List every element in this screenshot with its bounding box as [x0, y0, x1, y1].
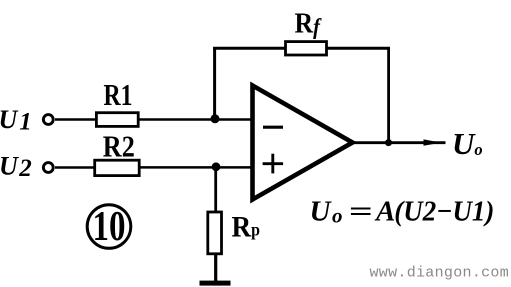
wire Rp to ground — [214, 255, 217, 282]
node U1 input terminal — [0, 105, 53, 136]
svg-text:U1: U1 — [0, 105, 32, 136]
wire feedback vertical right — [387, 47, 390, 143]
wire feedback top left — [213, 47, 286, 50]
wire U2 terminal to R2 — [55, 166, 94, 169]
resistor Rp — [208, 210, 260, 254]
resistor Rf — [286, 8, 327, 55]
pin plus (non-inverting input) — [263, 154, 284, 174]
svg-text:Rf: Rf — [295, 8, 323, 40]
pin minus (inverting input) — [263, 126, 283, 129]
node junction at inverting input — [211, 114, 220, 123]
node junction at non-inverting input — [212, 162, 221, 171]
wire op-amp output to Uo with arrow — [353, 139, 446, 145]
resistor R1 — [96, 77, 138, 126]
figure number 10 — [87, 204, 131, 250]
node U2 input terminal — [0, 152, 53, 183]
wire feedback vertical left — [213, 47, 216, 120]
svg-text:Uo=A(U2−U1): Uo=A(U2−U1) — [310, 196, 495, 228]
svg-text:Rp: Rp — [232, 210, 261, 243]
svg-text:Uo: Uo — [452, 126, 483, 161]
wire junction down to Rp — [214, 168, 217, 213]
wire R2 to op-amp non-inverting input — [139, 166, 252, 169]
ground — [200, 281, 231, 286]
wire R1 to op-amp inverting input — [138, 118, 252, 121]
svg-text:www.diangon.com: www.diangon.com — [370, 265, 510, 282]
svg-text:U2: U2 — [0, 152, 32, 183]
resistor R2 — [95, 128, 140, 175]
svg-text:10: 10 — [93, 204, 126, 250]
svg-text:R2: R2 — [103, 128, 135, 163]
wire feedback top right — [326, 47, 390, 50]
op-amp A triangle — [253, 86, 353, 200]
node output junction — [385, 139, 392, 146]
svg-text:R1: R1 — [104, 77, 133, 112]
wire U1 terminal to R1 — [55, 118, 96, 121]
